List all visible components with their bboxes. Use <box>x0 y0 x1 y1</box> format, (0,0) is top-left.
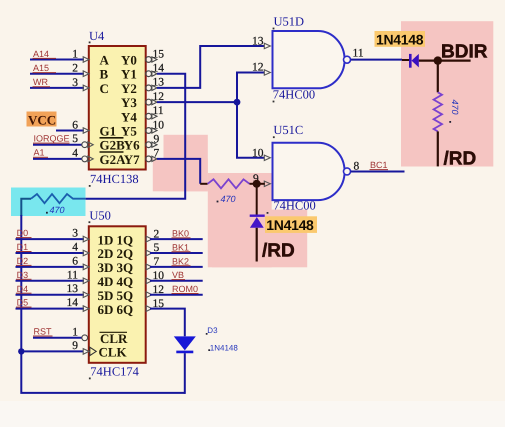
svg-text:C: C <box>100 81 109 96</box>
wire diode to /RD stub <box>256 228 258 262</box>
svg-text:1Q: 1Q <box>117 232 134 247</box>
value label 1N4148 (top, highlighted) <box>375 31 426 47</box>
U50 pin 14 wire (D5) <box>16 297 90 311</box>
U4 pin 4 wire (A1) <box>33 147 93 161</box>
value label 470 (mid) <box>217 194 236 204</box>
U51D output bubble <box>344 56 351 63</box>
svg-text:13: 13 <box>153 77 165 89</box>
svg-text:13: 13 <box>67 283 79 295</box>
svg-text:A: A <box>100 53 110 68</box>
svg-text:A14: A14 <box>33 49 49 59</box>
svg-text:ROM0: ROM0 <box>172 284 198 294</box>
net label A15 <box>33 63 57 73</box>
U50 pin 5 wire (BK1) <box>146 242 203 256</box>
U51C reference label <box>273 123 303 138</box>
wire junction down to diode <box>256 184 258 215</box>
svg-text:4: 4 <box>72 242 78 254</box>
svg-text:5D: 5D <box>98 288 114 303</box>
wire BDIR node down to resistor <box>437 61 439 93</box>
svg-text:74HC174: 74HC174 <box>90 365 139 379</box>
svg-text:5: 5 <box>72 133 78 145</box>
svg-text:BK2: BK2 <box>172 256 189 266</box>
U50 pin 9 wire (CLK) <box>21 340 89 354</box>
svg-text:CLR: CLR <box>100 331 128 346</box>
net label D4 <box>16 284 32 294</box>
highlight cyan box (resistor R near U50) <box>11 188 86 217</box>
net label RST <box>33 327 53 337</box>
svg-text:5Q: 5Q <box>117 288 134 303</box>
svg-text:470: 470 <box>221 194 236 204</box>
wire Y1 pin14 down-left to resistor <box>86 74 186 199</box>
svg-text:D4: D4 <box>17 284 29 294</box>
svg-text:3Q: 3Q <box>117 260 134 275</box>
junction node CLK branch <box>18 348 24 354</box>
svg-text:2Q: 2Q <box>117 246 134 261</box>
wire stub to diode (under highlight) <box>402 59 409 61</box>
junction node 9 <box>253 180 261 188</box>
svg-text:1: 1 <box>72 326 78 338</box>
net label D5 <box>16 298 32 308</box>
net label WR <box>33 77 51 87</box>
net label BK1 <box>172 242 191 252</box>
svg-text:U50: U50 <box>89 209 111 223</box>
U51C output wire (BC1) <box>351 170 405 172</box>
value label 470 (right, rotated) <box>449 100 460 123</box>
svg-text:4D: 4D <box>98 274 114 289</box>
value label 470 (cyan) <box>46 205 65 215</box>
IC U50 74HC174 body <box>89 226 146 362</box>
highlight pink box A2 (left step of pink A) <box>153 159 208 192</box>
svg-text:VB: VB <box>172 270 184 280</box>
power label VCC <box>27 112 57 128</box>
svg-text:U51C: U51C <box>273 123 303 137</box>
svg-text:4: 4 <box>72 147 78 159</box>
U4 pin 6 wire (G1) <box>56 120 89 134</box>
svg-text:7: 7 <box>154 256 160 268</box>
svg-text:D2: D2 <box>17 256 29 266</box>
U50 pin 15 wire to diode D3 <box>146 298 185 336</box>
svg-text:B: B <box>100 67 109 82</box>
resistor R-right 470 (vertical) <box>434 92 442 131</box>
U50 reference label <box>89 209 111 224</box>
U50 part label 74HC174 <box>89 365 140 380</box>
U50 pin 7 wire (BK2) <box>146 256 203 270</box>
NAND gate U51C body <box>273 143 345 200</box>
U50 pin 2 wire (BK0) <box>146 228 203 242</box>
diode D3 1N4148 (cathode down) <box>174 336 196 352</box>
svg-text:10: 10 <box>153 119 165 131</box>
svg-text:74HC138: 74HC138 <box>90 172 139 186</box>
wire junction column to U51D input 12 <box>237 73 265 158</box>
svg-text:6D: 6D <box>98 302 114 317</box>
U51C part label 74HC00 <box>267 199 316 214</box>
wire junction to U51C input 9 <box>257 183 265 185</box>
svg-text:A15: A15 <box>33 63 49 73</box>
svg-text:5: 5 <box>154 242 160 254</box>
U4 pin 2 wire (A15) <box>30 63 89 77</box>
U50 pin 3 wire (D0) <box>16 228 90 242</box>
designator label D3 <box>206 326 218 335</box>
svg-text:D5: D5 <box>17 298 29 308</box>
net label A14 <box>33 49 57 59</box>
svg-text:15: 15 <box>153 298 165 310</box>
svg-text:U51D: U51D <box>274 15 305 29</box>
svg-text:4Q: 4Q <box>117 274 134 289</box>
U50 pin 1 wire (RST / CLR) <box>33 326 88 340</box>
U4 pin 1 wire (A14) <box>30 49 89 63</box>
value label 1N4148 (D3) <box>208 343 238 352</box>
NAND gate U51D body <box>273 31 345 88</box>
svg-text:G2A: G2A <box>100 152 127 167</box>
svg-text:74HC00: 74HC00 <box>273 199 315 213</box>
U50 pin 13 wire (D4) <box>16 283 90 297</box>
svg-text:10: 10 <box>153 270 165 282</box>
svg-text:CLK: CLK <box>99 345 128 360</box>
svg-text:12: 12 <box>153 284 165 296</box>
svg-text:12: 12 <box>252 62 264 74</box>
resistor R-cyan 470 <box>31 194 86 203</box>
wire Y7 pin7 to mid resistor <box>157 159 200 184</box>
svg-text:Y4: Y4 <box>121 109 137 124</box>
diode D-mid 1N4148 (cathode up) <box>250 216 265 228</box>
svg-text:BC1: BC1 <box>370 160 388 170</box>
svg-text:13: 13 <box>252 36 264 48</box>
svg-text:D3: D3 <box>17 270 29 280</box>
U51C input arrows <box>264 155 270 186</box>
U51D reference label <box>273 15 304 30</box>
U50 pin 4 wire (D1) <box>16 242 90 256</box>
svg-text:6: 6 <box>72 120 78 132</box>
svg-text:Y0: Y0 <box>121 53 137 68</box>
wire Y2 pin13 to U51D input 13 <box>157 46 265 88</box>
svg-text:Y1: Y1 <box>121 67 137 82</box>
svg-text:D3: D3 <box>207 326 218 335</box>
U4 part label 74HC138 <box>89 172 139 187</box>
wire cyan resistor left lead and left vertical <box>21 199 31 216</box>
svg-text:IORQGE: IORQGE <box>34 134 70 144</box>
net label D3 <box>16 270 32 280</box>
U51D output wire to diode <box>351 59 402 61</box>
svg-text:3D: 3D <box>98 260 114 275</box>
svg-text:15: 15 <box>153 48 165 60</box>
svg-text:1N4148: 1N4148 <box>376 31 424 47</box>
U4 pin 5 wire (IORQGE) <box>33 133 93 147</box>
svg-text:G1: G1 <box>100 124 117 139</box>
wire Y3 pin12 to junction <box>157 101 237 103</box>
U51D part label 74HC00 <box>273 87 316 102</box>
resistor R-mid 470 <box>208 179 250 188</box>
svg-text:1N4148: 1N4148 <box>210 343 239 352</box>
svg-text:470: 470 <box>50 205 65 215</box>
svg-text:1: 1 <box>72 49 78 61</box>
U4 reference label <box>89 29 105 43</box>
U4 right pin numbers <box>153 48 165 159</box>
svg-text:Y6: Y6 <box>124 138 140 153</box>
svg-text:D0: D0 <box>17 228 29 238</box>
diode D-right 1N4148 (cathode left) <box>410 54 419 68</box>
svg-text:74HC00: 74HC00 <box>273 87 315 101</box>
svg-text:A1: A1 <box>34 148 45 158</box>
U50 pin 12 wire (ROM0) <box>146 284 203 298</box>
svg-text:BK1: BK1 <box>172 242 189 252</box>
svg-text:Y5: Y5 <box>121 124 137 139</box>
svg-text:11: 11 <box>67 269 78 281</box>
svg-text:WR: WR <box>33 77 48 87</box>
svg-text:1D: 1D <box>98 232 114 247</box>
svg-text:2: 2 <box>154 228 160 240</box>
junction node BDIR <box>434 56 442 64</box>
highlight pink box B (mid resistor/diode strip) <box>208 173 272 267</box>
svg-text:G2B: G2B <box>100 138 126 153</box>
svg-text:1N4148: 1N4148 <box>266 217 314 233</box>
junction node pin12 branch <box>234 99 241 106</box>
svg-text:U4: U4 <box>89 29 105 43</box>
U50 pin 11 wire (D3) <box>16 269 90 283</box>
net label IORQGE <box>33 134 70 144</box>
svg-text:6Q: 6Q <box>117 302 134 317</box>
svg-text:3: 3 <box>72 228 78 240</box>
svg-text:RST: RST <box>34 327 53 337</box>
net label BK0 <box>172 229 191 239</box>
svg-text:Y2: Y2 <box>121 81 137 96</box>
highlight pink box C (mid /RD region) <box>212 210 307 268</box>
svg-text:14: 14 <box>67 297 79 309</box>
svg-text:/RD: /RD <box>444 149 477 170</box>
svg-text:Y3: Y3 <box>121 95 137 110</box>
svg-text:470: 470 <box>450 100 460 115</box>
value label 1N4148 (mid, highlighted) <box>265 216 317 233</box>
net label VB <box>172 270 186 280</box>
U4 pin 3 wire (WR) <box>30 77 89 91</box>
svg-text:9: 9 <box>154 134 160 146</box>
svg-text:2: 2 <box>72 63 78 75</box>
highlight pink box A1 (U4 pins 9/7 region) <box>164 135 208 192</box>
svg-text:9: 9 <box>72 340 78 352</box>
svg-text:10: 10 <box>252 147 264 159</box>
svg-text:VCC: VCC <box>28 112 56 127</box>
svg-text:3: 3 <box>72 77 78 89</box>
U4 output pins 15,14,13,12,11,10,9,7 bubbles <box>146 57 157 162</box>
net label ROM0 <box>172 284 199 294</box>
wire resistor to junction node 9 <box>250 183 254 185</box>
net label D0 <box>16 228 32 238</box>
svg-text:D1: D1 <box>17 242 29 252</box>
svg-text:11: 11 <box>153 105 164 117</box>
svg-text:BK0: BK0 <box>172 229 189 239</box>
svg-text:11: 11 <box>353 48 364 60</box>
svg-text:2D: 2D <box>98 246 114 261</box>
svg-text:/RD: /RD <box>262 241 295 262</box>
U51D input arrows <box>264 43 270 75</box>
wire resistor to /RD stub <box>437 131 439 166</box>
svg-text:6: 6 <box>72 255 78 267</box>
net label D1 <box>16 242 32 252</box>
highlight pink box right (BDIR region) <box>401 21 493 166</box>
net label BK2 <box>172 256 191 266</box>
net label D2 <box>16 256 32 266</box>
svg-text:BDIR: BDIR <box>441 42 488 63</box>
U50 pin 6 wire (D2) <box>16 255 90 269</box>
IC U4 74HC138 body <box>89 46 146 170</box>
net label BC1 <box>370 160 389 170</box>
U51C output bubble <box>344 168 351 175</box>
wire diode to BDIR node <box>419 59 471 61</box>
net label A1 <box>33 148 48 158</box>
wire D3 to bottom return <box>184 353 186 394</box>
U50 pin 10 wire (VB) <box>146 270 203 284</box>
svg-text:Y7: Y7 <box>124 152 140 167</box>
